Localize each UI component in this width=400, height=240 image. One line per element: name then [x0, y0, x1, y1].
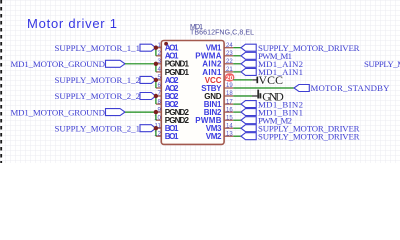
IC MD1 body (TB6612FNG motor driver)	[161, 41, 224, 145]
svg-text:24: 24	[226, 43, 233, 49]
ground symbol bars	[257, 90, 259, 99]
svg-text:SUPPLY_MO: SUPPLY_MO	[364, 59, 400, 69]
svg-text:MD1_MOTOR_GROUND: MD1_MOTOR_GROUND	[11, 107, 106, 117]
sheet frame border (left edge, dashed)	[0, 0, 2, 163]
port flag SUPPLY_MOTOR_1_1	[140, 44, 156, 51]
pin 1 stub (left, AO1)	[156, 47, 162, 49]
pin 13 stub (right, VM2)	[224, 135, 234, 137]
wire pin pair vertical	[155, 128, 157, 136]
svg-text:12: 12	[154, 131, 161, 137]
wire pin to port	[233, 119, 241, 121]
svg-text:TB6612FNG,C,8,EL: TB6612FNG,C,8,EL	[190, 30, 254, 37]
svg-text:22: 22	[226, 59, 233, 65]
wire pin 19 to MOTOR_STANDBY port	[233, 87, 294, 89]
svg-text:SUPPLY_MOTOR_2_2: SUPPLY_MOTOR_2_2	[55, 91, 140, 101]
wire pin pair vertical	[155, 112, 157, 120]
port flag MD1_AIN2	[241, 60, 256, 67]
svg-text:15: 15	[226, 115, 233, 121]
VCC power flag pin	[252, 79, 256, 81]
wire pin to port	[233, 111, 241, 113]
wire pin 18 to GND flag	[233, 95, 252, 97]
pin 14 stub (right, VM3)	[224, 127, 234, 129]
svg-text:SUPPLY_MOTOR_2_1: SUPPLY_MOTOR_2_1	[55, 123, 140, 133]
svg-text:VM2: VM2	[206, 132, 222, 141]
pin 16 stub (right, BIN2)	[224, 111, 234, 113]
pin 15 stub (right, PWMB)	[224, 119, 234, 121]
pin 5 stub (left, AO2)	[156, 79, 162, 81]
wire pin pair vertical	[155, 96, 157, 104]
pin 7 stub (left, BO2)	[156, 95, 162, 97]
port flag MD1_BIN2	[241, 101, 256, 108]
port flag SUPPLY_MOTOR_2_1	[140, 125, 156, 132]
port flag MD1_MOTOR_GROUND	[106, 60, 126, 67]
svg-text:SUPPLY_MOTOR_1_2: SUPPLY_MOTOR_1_2	[55, 75, 140, 85]
ground flag pin	[252, 95, 257, 97]
wire pin pair vertical	[155, 64, 157, 72]
port flag SUPPLY_MOTOR_1_2	[140, 76, 156, 83]
port flag MOTOR_STANDBY	[294, 85, 309, 92]
wire pin 20 to VCC flag	[233, 79, 252, 81]
pin 20 stub (right, VCC)	[224, 79, 234, 81]
wire pin to port	[233, 103, 241, 105]
wire pin pair vertical	[155, 48, 157, 56]
VCC power flag bar	[256, 77, 258, 84]
pin 18 stub (right, GND)	[224, 95, 234, 97]
port flag PWM_M2	[241, 117, 256, 124]
junction dot	[154, 110, 158, 114]
port flag MD1_BIN1	[241, 109, 256, 116]
pin 11 stub (left, BO1)	[156, 127, 162, 129]
junction dot	[154, 94, 158, 98]
pin number 20 (highlighted badge)	[225, 73, 235, 81]
pin 8 stub (left, BO2)	[156, 103, 162, 105]
wire pin to port	[233, 127, 241, 129]
svg-text:19: 19	[226, 83, 233, 89]
svg-text:MOTOR_STANDBY: MOTOR_STANDBY	[311, 83, 391, 93]
port flag PWM_M1	[241, 52, 256, 59]
junction dot	[154, 62, 158, 66]
svg-text:Motor driver 1: Motor driver 1	[27, 16, 117, 31]
pin 12 stub (left, BO1)	[156, 135, 162, 137]
svg-text:GND: GND	[262, 89, 284, 103]
pin 23 stub (right, PWMA)	[224, 55, 234, 57]
svg-text:13: 13	[226, 131, 233, 137]
port flag SUPPLY_MOTOR_DRIVER	[241, 125, 256, 132]
port flag SUPPLY_MOTOR_DRIVER	[241, 133, 256, 140]
svg-text:21: 21	[226, 67, 233, 73]
svg-text:16: 16	[226, 107, 233, 113]
wire pin to port	[233, 135, 241, 137]
junction dot	[154, 126, 158, 130]
wire MD1_MOTOR_GROUND to pin	[125, 63, 156, 65]
pin 3 stub (left, PGND1)	[156, 63, 162, 65]
wire pin to port	[233, 47, 241, 49]
IC origin marker dot	[164, 42, 168, 46]
wire MD1_MOTOR_GROUND to pin	[125, 111, 156, 113]
svg-text:VCC: VCC	[259, 73, 284, 87]
pin 19 stub (right, STBY)	[224, 87, 234, 89]
svg-text:SUPPLY_MOTOR_1_1: SUPPLY_MOTOR_1_1	[55, 43, 140, 53]
svg-text:23: 23	[226, 51, 233, 57]
wire pin to port	[233, 63, 241, 65]
pin 17 stub (right, BIN1)	[224, 103, 234, 105]
pin 10 stub (left, PGND2)	[156, 119, 162, 121]
pin 2 stub (left, AO1)	[156, 55, 162, 57]
svg-text:18: 18	[226, 91, 233, 97]
pin 9 stub (left, PGND2)	[156, 111, 162, 113]
pin 4 stub (left, PGND1)	[156, 71, 162, 73]
port flag SUPPLY_MOTOR_DRIVER	[241, 44, 256, 51]
port flag MD1_MOTOR_GROUND	[106, 109, 126, 116]
junction dot	[154, 78, 158, 82]
pin 6 stub (left, AO2)	[156, 87, 162, 89]
pin 22 stub (right, AIN2)	[224, 63, 234, 65]
svg-text:MD1_MOTOR_GROUND: MD1_MOTOR_GROUND	[11, 59, 106, 69]
svg-text:17: 17	[226, 99, 233, 105]
pin 21 stub (right, AIN1)	[224, 71, 234, 73]
wire pin to port	[233, 55, 241, 57]
wire pin pair vertical	[155, 80, 157, 88]
port flag SUPPLY_MOTOR_2_2	[140, 93, 156, 100]
svg-text:SUPPLY_MOTOR_DRIVER: SUPPLY_MOTOR_DRIVER	[258, 131, 360, 141]
svg-text:14: 14	[226, 123, 233, 129]
wire pin to port	[233, 71, 241, 73]
svg-text:20: 20	[226, 75, 234, 82]
svg-text:BO1: BO1	[165, 132, 179, 141]
pin 24 stub (right, VM1)	[224, 47, 234, 49]
svg-text:10: 10	[154, 115, 161, 121]
port flag MD1_AIN1	[241, 68, 256, 75]
junction dot	[154, 46, 158, 50]
